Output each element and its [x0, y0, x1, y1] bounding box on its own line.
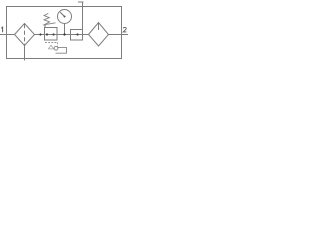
regulator R box — [45, 28, 58, 41]
gauge hub dot — [64, 16, 66, 18]
node regulator inner left — [46, 33, 48, 35]
node regulator inner right — [52, 33, 54, 35]
relief pilot dashed drop — [57, 43, 59, 47]
gauge stem — [64, 24, 66, 35]
wire inlet — [0, 34, 15, 36]
wire outlet — [109, 34, 129, 36]
regulator adjustment arrow — [45, 23, 56, 25]
exhaust triangle — [48, 45, 53, 49]
node filter-regulator — [39, 33, 41, 35]
valve flow line — [71, 34, 83, 36]
drain bowl box — [56, 47, 67, 53]
wire regulator to valve box — [57, 34, 71, 36]
port label 2 — [123, 27, 126, 32]
enclosure box — [7, 7, 122, 59]
wire filter to regulator — [35, 34, 45, 36]
node valve — [76, 33, 78, 35]
drain valve circle — [54, 46, 58, 50]
filter drain wire — [24, 46, 26, 61]
lubricator drip line — [98, 23, 100, 30]
filter F diamond — [15, 24, 35, 46]
filter element dashed line — [24, 24, 26, 45]
valve box — [71, 30, 83, 41]
gauge needle — [60, 12, 65, 17]
arrowhead — [42, 24, 46, 26]
gauge G circle — [58, 10, 72, 24]
port label 1 — [1, 27, 2, 32]
node gauge tap — [63, 33, 65, 35]
regulator flow line — [45, 34, 58, 36]
regulator spring — [44, 13, 50, 27]
vent line — [82, 2, 84, 30]
vent top bar — [78, 1, 84, 3]
wire valve to lubricator — [83, 34, 89, 36]
relief pilot dashed line — [45, 42, 58, 44]
lubricator L diamond — [89, 23, 109, 47]
